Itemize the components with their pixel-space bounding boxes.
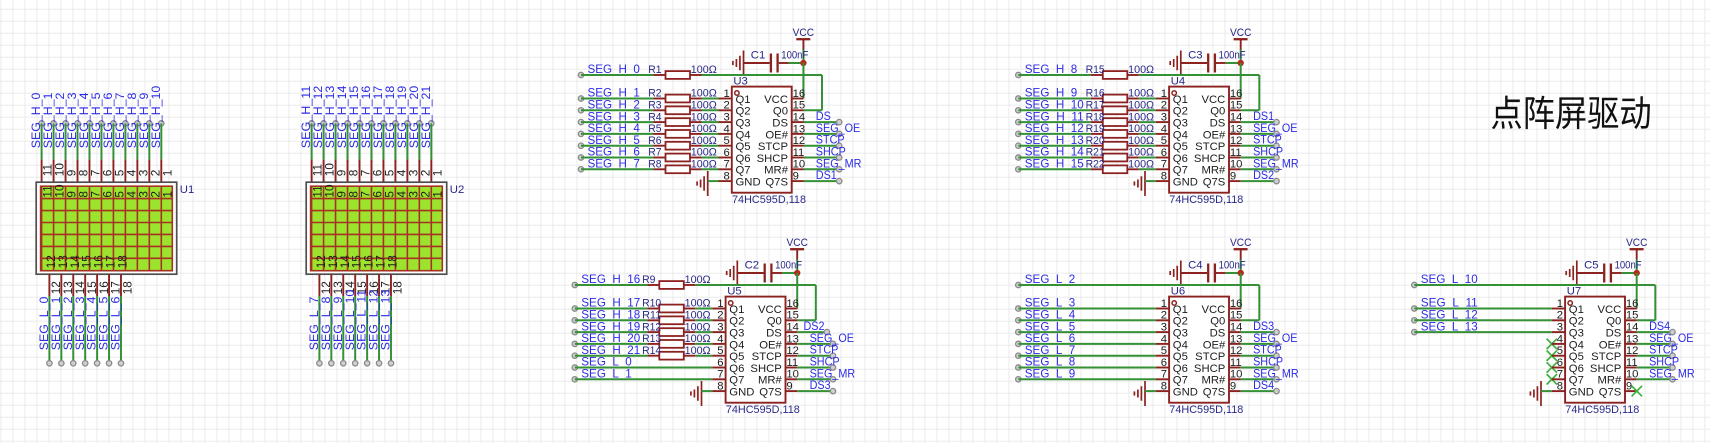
- svg-text:R8: R8: [648, 159, 661, 171]
- svg-text:100nF: 100nF: [775, 259, 802, 271]
- wire STCP: [1637, 355, 1673, 357]
- wire SEG_OE: [797, 343, 833, 345]
- wire SEG_OE: [804, 133, 840, 135]
- resistor R9 100&#937;: [647, 284, 659, 286]
- svg-text:Q7S: Q7S: [1599, 387, 1622, 399]
- svg-text:STCP: STCP: [758, 141, 788, 153]
- svg-text:74HC595D,118: 74HC595D,118: [1169, 194, 1243, 206]
- svg-text:14: 14: [1230, 322, 1243, 334]
- wire SEG_L_5: [108, 296, 110, 363]
- wire SEG_H_3: [581, 121, 654, 123]
- resistor R19 100&#937;: [1091, 133, 1103, 135]
- wire loop to pin 15: [1258, 285, 1260, 320]
- pin 8 (top): [347, 160, 349, 184]
- pin 8 (top): [77, 160, 79, 184]
- svg-text:STCP: STCP: [1195, 351, 1225, 363]
- node DS3: [1274, 329, 1279, 334]
- svg-text:74HC595D,118: 74HC595D,118: [732, 194, 806, 206]
- wire SEG_H_19: [575, 331, 648, 333]
- wire SEG_L_4: [1018, 319, 1156, 321]
- svg-text:2: 2: [717, 310, 723, 322]
- pin 10: [786, 378, 798, 380]
- svg-text:6: 6: [1161, 357, 1167, 369]
- svg-text:7: 7: [1557, 369, 1563, 381]
- svg-text:MR#: MR#: [764, 165, 789, 177]
- svg-text:R17: R17: [1086, 100, 1105, 112]
- node SEG_L_5: [106, 361, 111, 366]
- node STCP: [1670, 353, 1675, 358]
- wire: [1139, 157, 1156, 159]
- pin 4: [1156, 343, 1169, 345]
- ground (capacitor C1): [743, 51, 745, 76]
- pin 4 (top): [124, 160, 126, 184]
- node SEG_H_1: [51, 121, 56, 126]
- LED dot-matrix display U1: [36, 182, 177, 274]
- wire: [695, 319, 712, 321]
- node SEG_H_9: [147, 121, 152, 126]
- wire to Q0: [1139, 74, 1260, 76]
- wire SEG_H_14: [1018, 157, 1091, 159]
- pin 7: [719, 168, 732, 170]
- svg-text:Q4: Q4: [1173, 129, 1188, 141]
- wire SEG_L_2 to Q0: [1018, 284, 1259, 286]
- pin 6: [719, 157, 732, 159]
- svg-text:10: 10: [1626, 369, 1639, 381]
- pin 9: [1229, 180, 1241, 182]
- pin 13: [786, 343, 798, 345]
- svg-text:OE#: OE#: [759, 339, 782, 351]
- svg-text:16: 16: [786, 298, 799, 310]
- node SEG_H_19: [572, 329, 577, 334]
- wire: [702, 98, 719, 100]
- svg-text:MR#: MR#: [1597, 375, 1622, 387]
- wire cap to VCC: [1622, 272, 1637, 274]
- resistor R6 100&#937;: [654, 145, 666, 147]
- junction: [800, 60, 806, 66]
- svg-text:5: 5: [1161, 345, 1167, 357]
- wire: [702, 168, 719, 170]
- svg-text:1: 1: [430, 191, 444, 198]
- pin 16: [792, 98, 804, 100]
- wire: [695, 331, 712, 333]
- wire cap to VCC: [1226, 272, 1241, 274]
- wire: [1139, 133, 1156, 135]
- pin 7: [1552, 378, 1565, 380]
- svg-text:SHCP: SHCP: [757, 153, 788, 165]
- svg-text:Q7: Q7: [1173, 165, 1188, 177]
- capacitor C4 100nF: [1181, 272, 1207, 274]
- svg-text:18: 18: [121, 281, 135, 295]
- svg-text:11: 11: [786, 357, 798, 369]
- node DS2: [824, 329, 829, 334]
- node SEG_L_12: [1412, 318, 1417, 323]
- ground (pin 8): [701, 381, 703, 406]
- wire SEG_L_13: [1414, 331, 1552, 333]
- node SEG_H_21: [429, 121, 434, 126]
- resistor R8 100&#937;: [654, 168, 666, 170]
- wire VCC to pin 16: [1636, 273, 1638, 309]
- svg-text:1: 1: [1557, 298, 1563, 310]
- junction: [794, 270, 800, 276]
- pin 4: [1156, 133, 1169, 135]
- wire SEG_H_6: [112, 123, 114, 159]
- pin 1: [1552, 308, 1565, 310]
- svg-text:8: 8: [717, 381, 723, 393]
- pin 5: [712, 355, 725, 357]
- svg-text:7: 7: [1161, 159, 1167, 171]
- pin 1: [719, 98, 732, 100]
- node SEG_H_15: [1016, 167, 1021, 172]
- svg-text:OE#: OE#: [1599, 339, 1622, 351]
- pin 12 (bottom): [48, 274, 50, 296]
- svg-text:DS2: DS2: [1253, 168, 1274, 182]
- ground (pin 8): [707, 171, 709, 196]
- svg-text:DS: DS: [1210, 328, 1226, 340]
- svg-text:R5: R5: [648, 123, 661, 135]
- wire STCP: [797, 355, 833, 357]
- wire cap to VCC: [789, 62, 804, 64]
- svg-text:Q3: Q3: [736, 118, 751, 130]
- svg-text:U1: U1: [180, 184, 194, 196]
- node SEG_L_11: [364, 361, 369, 366]
- svg-text:STCP: STCP: [1195, 141, 1225, 153]
- node SEG_OE: [837, 131, 842, 136]
- node STCP: [837, 143, 842, 148]
- pin 13: [792, 133, 804, 135]
- pin 12: [1229, 355, 1241, 357]
- capacitor C2 100nF: [737, 272, 763, 274]
- svg-text:3: 3: [1557, 322, 1563, 334]
- wire: [1139, 109, 1156, 111]
- wire loop to pin 15: [1654, 285, 1656, 320]
- pin 4: [1552, 343, 1565, 345]
- svg-text:DS4: DS4: [1253, 378, 1274, 392]
- svg-text:5: 5: [717, 345, 723, 357]
- wire: [702, 133, 719, 135]
- wire SEG_H_4: [581, 133, 654, 135]
- svg-text:MR#: MR#: [1201, 375, 1226, 387]
- wire: [1139, 145, 1156, 147]
- ground (pin 8): [1144, 171, 1146, 196]
- node SEG_H_7: [578, 167, 583, 172]
- pin 15: [786, 319, 798, 321]
- pin 16: [1229, 308, 1241, 310]
- node SEG_OE: [1274, 131, 1279, 136]
- svg-text:VCC: VCC: [793, 27, 815, 39]
- wire SEG_H_11: [311, 123, 313, 159]
- svg-text:U2: U2: [450, 184, 464, 196]
- svg-text:100nF: 100nF: [1219, 259, 1246, 271]
- wire SHCP: [804, 157, 840, 159]
- pin 17 (bottom): [378, 274, 380, 296]
- svg-text:12: 12: [1230, 135, 1243, 147]
- svg-text:DS: DS: [772, 118, 788, 130]
- svg-text:10: 10: [786, 369, 799, 381]
- svg-text:GND: GND: [1173, 387, 1198, 399]
- wire: [1139, 168, 1156, 170]
- wire SEG_H_9: [1018, 98, 1091, 100]
- node SEG_L_2: [71, 361, 76, 366]
- svg-text:Q6: Q6: [1173, 153, 1188, 165]
- pin 2 (top): [418, 160, 420, 184]
- node SEG_H_13: [1016, 143, 1021, 148]
- wire: [702, 145, 719, 147]
- pin 11 (top): [41, 160, 43, 184]
- node SEG_L_7: [1016, 353, 1021, 358]
- svg-text:12: 12: [786, 345, 799, 357]
- wire SEG_H_11: [1018, 121, 1091, 123]
- wire loop to pin 15: [821, 75, 823, 110]
- wire SEG_H_21: [430, 123, 432, 159]
- node SEG_H_4: [578, 131, 583, 136]
- pin 16: [1229, 98, 1241, 100]
- svg-text:DS1: DS1: [816, 168, 837, 182]
- node SEG_MR: [830, 377, 835, 382]
- svg-text:Q0: Q0: [1606, 316, 1621, 328]
- node SEG_L_7: [317, 361, 322, 366]
- wire SEG_H_5: [100, 123, 102, 159]
- svg-text:Q7: Q7: [736, 165, 751, 177]
- pin 4: [712, 343, 725, 345]
- ground (capacitor C3): [1180, 51, 1182, 76]
- svg-text:SEG_MR: SEG_MR: [1649, 366, 1695, 380]
- wire SEG_L_1: [60, 296, 62, 363]
- svg-text:18: 18: [385, 255, 399, 269]
- pin 18 (bottom): [390, 274, 392, 296]
- resistor R5 100&#937;: [654, 133, 666, 135]
- wire gnd: [1145, 390, 1156, 392]
- svg-text:MR#: MR#: [758, 375, 783, 387]
- svg-text:R21: R21: [1086, 147, 1105, 159]
- svg-text:2: 2: [1557, 310, 1563, 322]
- wire DS1: [1241, 121, 1277, 123]
- svg-text:9: 9: [1230, 171, 1236, 183]
- svg-text:1: 1: [724, 88, 730, 100]
- wire SEG_H_2: [65, 123, 67, 159]
- svg-text:13: 13: [793, 123, 806, 135]
- svg-text:SEG_L_6: SEG_L_6: [109, 296, 123, 350]
- node SHCP: [837, 155, 842, 160]
- wire SEG_H_8: [136, 123, 138, 159]
- node SHCP: [830, 365, 835, 370]
- pin 7 (top): [358, 160, 360, 184]
- pin 7: [712, 378, 725, 380]
- wire SEG_H_0: [581, 74, 654, 76]
- pin 9: [792, 180, 804, 182]
- pin 11 (top): [311, 160, 313, 184]
- wire VCC to pin 16: [1240, 63, 1242, 99]
- svg-text:2: 2: [724, 100, 730, 112]
- svg-text:Q5: Q5: [736, 141, 751, 153]
- svg-text:18: 18: [391, 281, 405, 295]
- pin 15: [792, 109, 804, 111]
- svg-text:13: 13: [1230, 123, 1243, 135]
- pin 6: [1156, 157, 1169, 159]
- pin 9 (top): [65, 160, 67, 184]
- node SEG_H_17: [572, 306, 577, 311]
- wire: [1139, 98, 1156, 100]
- no-connect pin 6: [1547, 362, 1557, 372]
- svg-text:Q5: Q5: [1173, 141, 1188, 153]
- pin 6 (top): [100, 160, 102, 184]
- node SEG_H_8: [135, 121, 140, 126]
- svg-text:SHCP: SHCP: [1194, 153, 1225, 165]
- svg-text:C5: C5: [1584, 259, 1598, 271]
- svg-text:7: 7: [1161, 369, 1167, 381]
- svg-text:15: 15: [1230, 100, 1243, 112]
- node SEG_L_1: [59, 361, 64, 366]
- wire SEG_MR: [1241, 168, 1277, 170]
- pin 18 (bottom): [120, 274, 122, 296]
- wire STCP: [1241, 145, 1277, 147]
- wire SEG_H_15: [1018, 168, 1091, 170]
- wire DS3: [797, 390, 833, 392]
- node SEG_L_0: [47, 361, 52, 366]
- svg-text:12: 12: [793, 135, 806, 147]
- wire SEG_L_3: [84, 296, 86, 363]
- pin 6 (top): [370, 160, 372, 184]
- pin 11: [1229, 157, 1241, 159]
- wire SEG_L_6: [1018, 343, 1156, 345]
- wire SEG_H_5: [581, 145, 654, 147]
- wire SEG_MR: [804, 168, 840, 170]
- node SEG_H_19: [405, 121, 410, 126]
- pin 3: [1552, 331, 1565, 333]
- svg-text:GND: GND: [736, 177, 761, 189]
- node SEG_MR: [1274, 167, 1279, 172]
- svg-text:U4: U4: [1171, 75, 1185, 87]
- wire STCP: [1241, 355, 1277, 357]
- svg-text:R13: R13: [642, 333, 661, 345]
- node SEG_L_6: [1016, 341, 1021, 346]
- pin 6: [712, 367, 725, 369]
- svg-text:8: 8: [1557, 381, 1563, 393]
- pin 10: [1229, 378, 1241, 380]
- wire SHCP: [1637, 367, 1673, 369]
- pin 10: [1625, 378, 1637, 380]
- wire SEG_H_15: [358, 123, 360, 159]
- svg-text:DS: DS: [1210, 118, 1226, 130]
- svg-text:U3: U3: [733, 75, 747, 87]
- pin 8: [1156, 390, 1169, 392]
- node SEG_OE: [830, 341, 835, 346]
- node SEG_H_21: [572, 353, 577, 358]
- pin 11: [786, 367, 798, 369]
- pin 15: [1625, 319, 1637, 321]
- node SEG_L_1: [572, 377, 577, 382]
- node SEG_L_9: [1016, 377, 1021, 382]
- svg-text:3: 3: [1161, 322, 1167, 334]
- svg-text:13: 13: [786, 333, 799, 345]
- pin 13: [1229, 343, 1241, 345]
- wire SEG_H_10: [160, 123, 162, 159]
- pin 4: [719, 133, 732, 135]
- op-amp body: shift register U5 74HC595D: [726, 297, 786, 403]
- resistor R15 100&#937;: [1091, 74, 1103, 76]
- wire SEG_L_10: [354, 296, 356, 363]
- pin 6: [1156, 367, 1169, 369]
- wire SEG_H_17: [575, 308, 648, 310]
- svg-text:100nF: 100nF: [1219, 49, 1246, 61]
- pin 14: [786, 331, 798, 333]
- wire cap to VCC: [782, 272, 797, 274]
- resistor R18 100&#937;: [1091, 121, 1103, 123]
- node SEG_H_0: [39, 121, 44, 126]
- svg-text:R4: R4: [648, 111, 661, 123]
- wire DS2: [1241, 180, 1277, 182]
- wire STCP: [804, 145, 840, 147]
- svg-text:9: 9: [1230, 381, 1236, 393]
- no-connect pin 5: [1547, 351, 1557, 361]
- pin 3: [719, 121, 732, 123]
- pin 15: [1229, 319, 1241, 321]
- svg-text:GND: GND: [1173, 177, 1198, 189]
- no-connect pin 9: [1632, 386, 1642, 396]
- wire SEG_L_10 to Q0: [1414, 284, 1655, 286]
- wire SEG_L_0: [48, 296, 50, 363]
- node SEG_H_11: [309, 121, 314, 126]
- pin 14: [1229, 331, 1241, 333]
- wire SEG_L_0: [575, 367, 713, 369]
- svg-text:13: 13: [1230, 333, 1243, 345]
- node SEG_L_4: [1016, 318, 1021, 323]
- node SEG_H_20: [572, 341, 577, 346]
- svg-text:R18: R18: [1086, 111, 1105, 123]
- pin 13 (bottom): [330, 274, 332, 296]
- op-amp body: shift register U4 74HC595D: [1169, 87, 1229, 193]
- wire SEG_H_1: [53, 123, 55, 159]
- node SEG_H_10: [1016, 108, 1021, 113]
- svg-text:3: 3: [724, 112, 730, 124]
- pin 13: [1229, 133, 1241, 135]
- svg-text:Q3: Q3: [1173, 328, 1188, 340]
- svg-text:18: 18: [115, 255, 129, 269]
- svg-text:GND: GND: [729, 387, 754, 399]
- svg-text:74HC595D,118: 74HC595D,118: [1169, 404, 1243, 416]
- svg-text:Q1: Q1: [1173, 94, 1188, 106]
- svg-text:R3: R3: [648, 100, 661, 112]
- pin 2: [1156, 319, 1169, 321]
- svg-text:OE#: OE#: [1203, 129, 1226, 141]
- no-connect pin 4: [1547, 339, 1557, 349]
- pin 11: [792, 157, 804, 159]
- wire SEG_L_8: [1018, 367, 1156, 369]
- svg-text:GND: GND: [1569, 387, 1594, 399]
- node SEG_L_10: [1412, 282, 1417, 287]
- title text: [1492, 96, 1650, 129]
- svg-text:4: 4: [717, 333, 723, 345]
- ground (pin 8): [1144, 381, 1146, 406]
- svg-text:VCC: VCC: [1201, 304, 1225, 316]
- svg-text:Q4: Q4: [1173, 339, 1188, 351]
- svg-text:DS3: DS3: [810, 378, 831, 392]
- svg-text:C2: C2: [745, 259, 759, 271]
- svg-text:Q0: Q0: [773, 106, 788, 118]
- node SHCP: [1274, 155, 1279, 160]
- svg-text:1: 1: [1161, 298, 1167, 310]
- pin 12: [792, 145, 804, 147]
- wire: [1139, 121, 1156, 123]
- svg-text:R14: R14: [642, 345, 661, 357]
- svg-text:SHCP: SHCP: [1590, 363, 1621, 375]
- node SHCP: [1274, 365, 1279, 370]
- capacitor C5 100nF: [1577, 272, 1603, 274]
- wire: [702, 157, 719, 159]
- pin 11: [1625, 367, 1637, 369]
- node SEG_L_13: [388, 361, 393, 366]
- resistor R14 100&#937;: [647, 355, 659, 357]
- resistor R7 100&#937;: [654, 157, 666, 159]
